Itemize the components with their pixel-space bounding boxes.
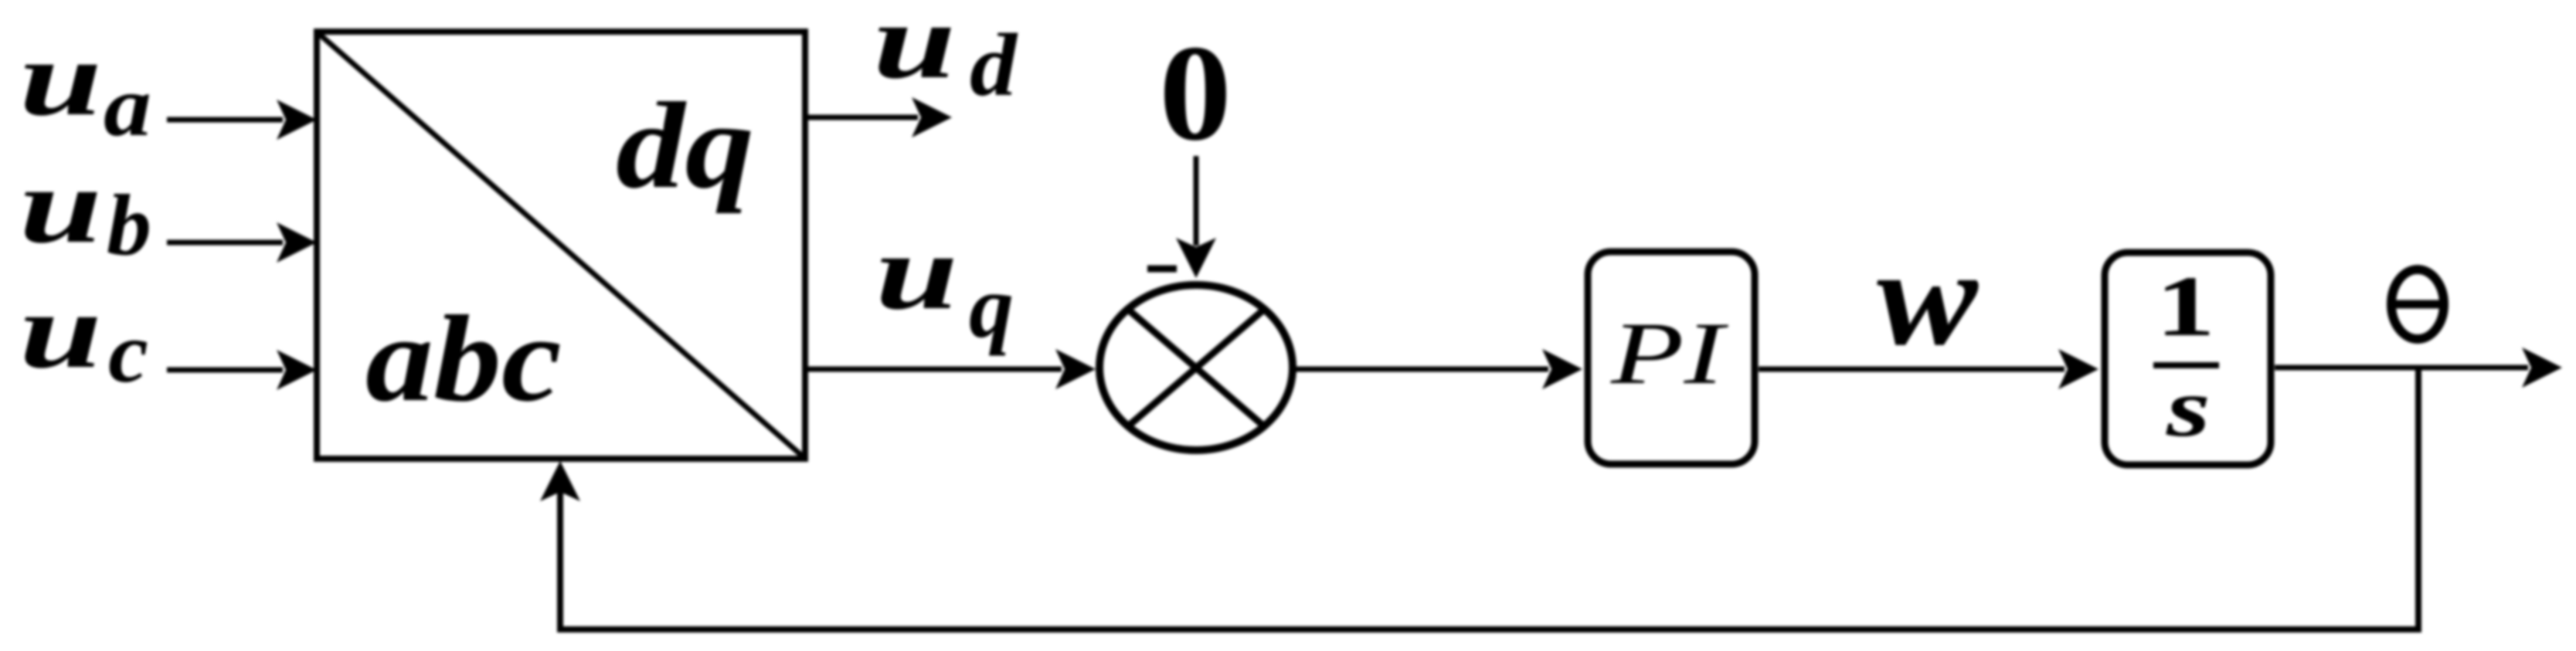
arrowhead feedback into block <box>540 461 580 501</box>
svg-text:a: a <box>104 59 151 154</box>
arrowhead uc <box>277 350 317 390</box>
arrowhead uq <box>1055 349 1096 389</box>
svg-text:b: b <box>107 178 151 273</box>
integrator block 1/s <box>2105 253 2271 465</box>
fraction bar <box>2153 362 2219 368</box>
svg-text:s: s <box>2166 362 2211 454</box>
summing junction circle <box>1099 285 1293 450</box>
diagonal of transform block <box>319 34 803 456</box>
svg-text:u: u <box>875 212 958 332</box>
svg-text:c: c <box>108 305 148 401</box>
feedback wire <box>560 368 2418 629</box>
svg-text:dq: dq <box>616 76 754 214</box>
wire ua input <box>167 117 283 123</box>
PI block <box>1588 252 1755 464</box>
wire uq output <box>805 367 1062 372</box>
svg-text:q: q <box>969 258 1014 357</box>
wire ub input <box>167 240 283 246</box>
svg-text:u: u <box>19 146 102 266</box>
X cross line 1 <box>1128 309 1265 426</box>
svg-text:u: u <box>19 271 102 391</box>
svg-text:0: 0 <box>1159 16 1232 169</box>
arrowhead into PI <box>1542 349 1582 389</box>
arrowhead ud <box>912 97 952 137</box>
svg-text:abc: abc <box>365 290 562 427</box>
wire PI to integrator <box>1759 367 2065 372</box>
wire sum to PI <box>1293 367 1548 372</box>
svg-text:1: 1 <box>2156 259 2215 354</box>
label theta <box>2390 270 2445 339</box>
wire 0 down <box>1194 156 1199 246</box>
wire ud output <box>805 115 918 120</box>
X cross line 2 <box>1128 309 1265 426</box>
svg-text:u: u <box>873 0 956 101</box>
arrowhead theta out <box>2522 348 2562 388</box>
arrowhead ub <box>277 222 317 263</box>
svg-text:PI: PI <box>1610 304 1729 402</box>
svg-text:d: d <box>970 16 1018 115</box>
arrowhead 0 <box>1176 238 1216 278</box>
minus sign <box>1147 266 1177 273</box>
wire uc input <box>167 368 283 373</box>
arrowhead into integrator <box>2058 349 2099 389</box>
svg-text:u: u <box>19 19 102 138</box>
arrowhead ua <box>277 100 317 140</box>
wire theta output <box>2275 365 2528 371</box>
svg-text:w: w <box>1877 220 1979 374</box>
transform block U1 abc->dq <box>317 32 805 459</box>
